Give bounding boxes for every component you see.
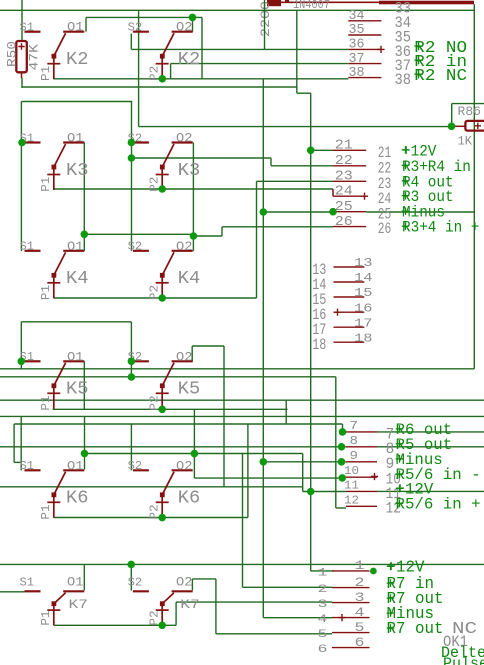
relay K7 contact S2/O2/P2 bbox=[133, 591, 193, 625]
wire drop x202 from O-line bbox=[201, 17, 203, 78]
junction dot (131.4,361.3) bbox=[128, 358, 136, 366]
relay K2 contact S1/O1/P1 bbox=[25, 32, 85, 79]
svg-text:24: 24 bbox=[335, 185, 353, 200]
wire Minus rail to pin4 bbox=[263, 617, 332, 619]
net label R7 out anchor cross bbox=[387, 624, 395, 632]
svg-text:35: 35 bbox=[349, 23, 365, 38]
net label R3+4 in + anchor cross bbox=[402, 222, 410, 230]
wire K5 staple top bbox=[21, 321, 131, 323]
svg-text:11: 11 bbox=[344, 478, 359, 492]
svg-text:10: 10 bbox=[344, 464, 359, 478]
connector pin 37 line bbox=[348, 63, 381, 65]
junction dot (310.7,150.3) bbox=[307, 147, 315, 155]
junction dot (22,142.5) bbox=[18, 139, 26, 147]
connector pin 14 line bbox=[334, 281, 365, 283]
pin 10 connection cross bbox=[371, 473, 378, 480]
wire K2.P common to pin38 R2 NC bbox=[54, 78, 349, 80]
connector pin 12 line bbox=[346, 505, 377, 507]
connector pin 18 line bbox=[334, 341, 365, 343]
svg-text:R5/6 in +: R5/6 in + bbox=[396, 495, 481, 513]
svg-text:K3: K3 bbox=[66, 160, 89, 181]
net label R3+R4 in anchor cross bbox=[402, 162, 410, 170]
connector pin 23 line bbox=[333, 180, 366, 182]
svg-text:K4: K4 bbox=[178, 268, 201, 289]
diode small lead stub bbox=[285, 0, 289, 2]
connector pin 21 line bbox=[333, 149, 366, 151]
relay K5 contact S2/O2/P2 bbox=[133, 361, 193, 409]
svg-text:S1: S1 bbox=[20, 240, 35, 254]
svg-text:O2: O2 bbox=[176, 240, 193, 254]
wire jog x342 to pin7 bbox=[342, 424, 344, 432]
svg-text:17: 17 bbox=[354, 316, 373, 330]
wire K6.O2 rail bbox=[193, 409, 195, 478]
wire R5 out net to right edge bbox=[377, 446, 484, 448]
svg-text:18: 18 bbox=[354, 331, 373, 345]
wire Minus net pin25 to x474 rail bbox=[366, 211, 474, 213]
wire net top horizontal bbox=[0, 9, 474, 11]
svg-text:K7: K7 bbox=[69, 597, 89, 612]
resistor R50 body bbox=[16, 41, 27, 72]
wire K6.O1 branch bbox=[85, 453, 303, 455]
wire K7.S2 up bbox=[130, 564, 132, 590]
pin 24 connection cross bbox=[361, 193, 368, 200]
connector pin 17 line bbox=[334, 326, 365, 328]
junction dot (162.2,409.3) bbox=[158, 406, 166, 414]
wire K2.P2 to pin37 R2 in bbox=[171, 63, 349, 65]
svg-text:P1: P1 bbox=[39, 66, 53, 81]
diode D? 1N4007 body fragment (cropped at top) bbox=[267, 0, 281, 6]
svg-text:5: 5 bbox=[355, 620, 365, 635]
junction dot (21.3,361.3) bbox=[18, 358, 26, 366]
svg-text:R2 NC: R2 NC bbox=[414, 67, 467, 86]
svg-text:P1: P1 bbox=[39, 285, 53, 300]
svg-text:O2: O2 bbox=[176, 459, 193, 473]
svg-text:6: 6 bbox=[355, 635, 365, 650]
junction dot (84.5,453.5) bbox=[81, 450, 89, 458]
svg-text:7: 7 bbox=[350, 419, 359, 433]
svg-text:K6: K6 bbox=[66, 488, 89, 509]
wire R6 out net to right edge bbox=[377, 431, 484, 433]
junction dot (342.5,431.9) bbox=[339, 428, 347, 436]
junction dot (263.3,461.8) bbox=[260, 458, 268, 466]
wire right rail x474 bbox=[473, 4, 475, 369]
junction dot (341.5,446.8) bbox=[338, 443, 346, 451]
svg-text:R7 out: R7 out bbox=[387, 620, 444, 638]
svg-text:O2: O2 bbox=[176, 576, 193, 590]
junction dot (131.4,142.5) bbox=[128, 139, 136, 147]
connector pin 15 line bbox=[334, 296, 365, 298]
wire K2.S2 down bbox=[130, 34, 132, 50]
svg-text:R50: R50 bbox=[5, 41, 19, 67]
svg-text:26: 26 bbox=[378, 220, 392, 238]
wire K2.O2 up bbox=[192, 17, 194, 31]
svg-text:16: 16 bbox=[354, 301, 373, 315]
wire R50 bottom rail bbox=[22, 86, 297, 88]
red jog wire at pin24 bbox=[332, 189, 334, 196]
svg-text:O1: O1 bbox=[67, 240, 84, 254]
svg-text:S2: S2 bbox=[128, 21, 143, 35]
junction dot (84.3,234.3) bbox=[81, 231, 89, 239]
wire K7 P1-P2 common bbox=[54, 624, 176, 626]
relay K3 contact S2/O2/P2 bbox=[133, 143, 193, 191]
junction dot (451.5,126.3) bbox=[448, 123, 456, 131]
relay K6 contact S2/O2/P2 bbox=[133, 470, 193, 518]
svg-text:K4: K4 bbox=[66, 268, 89, 289]
resistor R86 polarity cross bbox=[475, 123, 481, 129]
connector pin 24 line bbox=[333, 195, 366, 197]
svg-text:P1: P1 bbox=[39, 177, 53, 192]
svg-text:38: 38 bbox=[349, 66, 365, 81]
wire Minus rail to pin25 bbox=[263, 211, 333, 213]
wire K7.P to pin3 R7 out bbox=[176, 601, 332, 603]
wire K7.O2 riser to pin5 bbox=[215, 579, 217, 634]
svg-text:K5: K5 bbox=[66, 379, 89, 400]
connector pin 22 line bbox=[333, 165, 366, 167]
wire pin12 jog bbox=[336, 507, 346, 509]
wire long bus K7 row bbox=[0, 563, 484, 565]
junction dot (310.7,491.5) bbox=[307, 488, 315, 496]
connector pin 2 line bbox=[332, 587, 370, 589]
wire K2.O1 to O2 dot bbox=[86, 16, 202, 18]
svg-text:O1: O1 bbox=[67, 459, 84, 473]
wire riser x242 to pin2 R7 in bbox=[243, 586, 333, 588]
svg-text:O2: O2 bbox=[176, 21, 193, 35]
wire jog x222 bbox=[221, 227, 223, 236]
resistor R50 bottom lead bbox=[21, 72, 23, 78]
wire diode/2200 lead down bbox=[264, 0, 266, 49]
wire R86 frame top bbox=[452, 103, 484, 105]
connector pin 5 line bbox=[332, 632, 370, 634]
wire to pin11 bbox=[303, 491, 346, 493]
net label R5 out anchor cross bbox=[396, 440, 404, 448]
svg-text:+12V: +12V bbox=[387, 558, 425, 576]
wire K3.O2 down to dot bbox=[192, 143, 194, 251]
connector pin 7 line bbox=[346, 431, 377, 433]
wire K6 P1-P2 common bbox=[54, 517, 248, 519]
wire vertical x296 bbox=[296, 10, 298, 93]
svg-text:4: 4 bbox=[355, 605, 365, 620]
connector pin 1 line bbox=[332, 570, 370, 572]
svg-text:S2: S2 bbox=[128, 240, 143, 254]
wire S2 rail K3-K4 bbox=[131, 102, 133, 251]
connector pin 34 line bbox=[348, 20, 381, 22]
connector pin 11 line bbox=[346, 490, 377, 492]
wire K6.O1 rail bbox=[84, 416, 86, 469]
pin 1 wire end dot bbox=[370, 568, 377, 575]
wire Minus rail to pin9 bbox=[263, 461, 346, 463]
wire long bus A bbox=[0, 368, 474, 370]
wire K5.S1 rail bbox=[20, 322, 22, 369]
wire jog x271 bbox=[270, 158, 272, 166]
pin 16 connection cross bbox=[334, 309, 341, 316]
junction dot (131.4,158) bbox=[128, 154, 136, 162]
wire riser x302 bbox=[302, 454, 304, 492]
wire K5.P riser bbox=[285, 400, 287, 424]
junction dot (194.4,453.6) bbox=[191, 450, 199, 458]
svg-text:6: 6 bbox=[318, 644, 328, 656]
wire long bus E bbox=[0, 486, 303, 488]
wire jog x296 to x310 bbox=[297, 92, 311, 94]
wire K4.P riser to pin23 bbox=[256, 181, 258, 298]
net label R5/6 in + anchor cross bbox=[396, 500, 404, 508]
svg-text:26: 26 bbox=[335, 215, 353, 230]
wire K5.O1 drop bbox=[83, 361, 85, 409]
svg-text:13: 13 bbox=[354, 256, 373, 270]
svg-text:9: 9 bbox=[350, 449, 359, 463]
net label R2 NC anchor cross bbox=[414, 70, 422, 78]
wire K4.P to pin23 R4 out bbox=[257, 180, 334, 182]
resistor R86 body (cropped right) bbox=[465, 121, 484, 131]
wire K6.S2 rail bbox=[130, 424, 132, 470]
svg-text:25: 25 bbox=[335, 200, 353, 215]
wire K6.S1 rail bbox=[20, 416, 22, 470]
wire K5.O2 up stub bbox=[191, 346, 193, 361]
svg-text:K3: K3 bbox=[178, 160, 201, 181]
wire K5 P1-P2 common bbox=[53, 408, 288, 410]
junction dot (342.3,477.9) bbox=[339, 474, 347, 482]
wire net top to R86 net bbox=[138, 10, 140, 126]
wire K5.O2 riser x224 bbox=[223, 346, 225, 487]
junction dot (263.3,212) bbox=[260, 208, 268, 216]
relay K5 contact S1/O1/P1 bbox=[25, 361, 85, 409]
svg-text:1: 1 bbox=[318, 568, 329, 580]
wire K4 P1-P2 common bbox=[54, 297, 257, 299]
connector pin 25 line bbox=[333, 211, 366, 213]
wire Minus long rail x263 bbox=[262, 79, 264, 618]
net label R7 out anchor cross bbox=[387, 594, 395, 602]
net label R5/6 in - anchor cross bbox=[396, 470, 404, 478]
wire +12V to pin21 bbox=[311, 149, 333, 151]
wire +12V to pin1 bbox=[311, 570, 334, 572]
wire K3.S2 to pin22 jog left part bbox=[131, 157, 271, 159]
junction dot (131.2,564.4) bbox=[127, 561, 135, 569]
wire K2.P2 up jog bbox=[170, 64, 172, 79]
wire K3.P to pin24 R3 out bbox=[54, 188, 333, 190]
wire K6 staple jog bottom bbox=[14, 461, 21, 463]
net label R2 NO anchor cross bbox=[414, 42, 422, 50]
wire to pin22 R3+R4 in bbox=[271, 165, 333, 167]
svg-text:S2: S2 bbox=[128, 459, 143, 473]
junction dot (162.2,517.6) bbox=[158, 514, 166, 522]
svg-text:5: 5 bbox=[318, 629, 328, 641]
wire K7.O2 up jog bbox=[191, 579, 193, 590]
svg-text:K6: K6 bbox=[178, 488, 201, 509]
connector pin 38 line bbox=[348, 77, 381, 79]
resistor R50 polarity cross bbox=[18, 43, 24, 49]
wire pin12 riser x335 bbox=[335, 377, 337, 508]
wire R50 bottom lead join bbox=[21, 78, 23, 88]
connector pin 26 line bbox=[333, 226, 366, 228]
svg-text:P1: P1 bbox=[39, 395, 53, 410]
svg-text:2200: 2200 bbox=[258, 1, 273, 37]
svg-text:21: 21 bbox=[335, 139, 353, 154]
junction dot (131.4,377) bbox=[128, 373, 136, 381]
wire K7.P riser to pin3 bbox=[175, 602, 177, 625]
wire riser x242 from K6.O1 line bbox=[242, 454, 244, 588]
wire +12V long vertical rail bbox=[310, 93, 312, 571]
wire to pin26 R3+4 in bbox=[222, 226, 333, 228]
wire long net to R86 bbox=[139, 126, 452, 128]
svg-text:12: 12 bbox=[344, 493, 359, 507]
wire K7.S1 stub to left edge bbox=[0, 591, 25, 593]
svg-text:R3+4 in +: R3+4 in + bbox=[402, 219, 479, 237]
net label Minus anchor cross bbox=[402, 207, 410, 215]
wire K6.P riser x247.9 bbox=[247, 424, 249, 517]
wire K5.O2 branch top bbox=[192, 345, 224, 347]
svg-text:O1: O1 bbox=[67, 132, 84, 146]
connector pin 36 line bbox=[348, 48, 381, 50]
svg-text:18: 18 bbox=[312, 336, 326, 354]
junction dot (193.5,236) bbox=[190, 232, 198, 240]
wire +12V net to right edge bbox=[377, 490, 484, 492]
junction dot (162.2,625.3) bbox=[158, 622, 166, 630]
connector pin 16 line bbox=[334, 311, 365, 313]
svg-text:K5: K5 bbox=[178, 379, 201, 400]
net label R7 in anchor cross bbox=[387, 579, 395, 587]
svg-text:37: 37 bbox=[349, 52, 365, 67]
junction dot (341.5,461.8) bbox=[338, 458, 346, 466]
junction dot (192.5,17.4) bbox=[189, 14, 197, 22]
wire S1 rail K3-K4 bbox=[20, 102, 22, 252]
resistor R86 left lead bbox=[454, 125, 465, 127]
svg-text:36: 36 bbox=[349, 38, 365, 53]
wire O1 rail K3-K4 bbox=[83, 143, 85, 251]
svg-text:3: 3 bbox=[355, 590, 365, 605]
svg-text:S1: S1 bbox=[20, 21, 35, 35]
svg-text:P1: P1 bbox=[39, 504, 53, 519]
net label R6 out anchor cross bbox=[396, 425, 404, 433]
svg-text:P1: P1 bbox=[39, 610, 53, 625]
svg-text:15: 15 bbox=[354, 286, 373, 300]
svg-text:2: 2 bbox=[318, 584, 328, 596]
junction dot (162.2,298) bbox=[158, 294, 166, 302]
svg-text:O1: O1 bbox=[67, 21, 84, 35]
svg-text:K2: K2 bbox=[178, 49, 201, 70]
junction dot (162.2,189) bbox=[158, 185, 166, 193]
wire long bus D bbox=[0, 415, 484, 417]
svg-text:K7: K7 bbox=[180, 597, 200, 612]
svg-text:O2: O2 bbox=[176, 350, 193, 364]
net label R4 out anchor cross bbox=[402, 177, 410, 185]
net label +12V anchor cross bbox=[402, 146, 410, 154]
red bus bar top right (cropped) bbox=[379, 1, 474, 5]
wire S1 rail into R50 top bbox=[21, 0, 23, 41]
svg-text:O2: O2 bbox=[176, 132, 193, 146]
svg-text:14: 14 bbox=[354, 271, 373, 285]
wire R86 frame left bbox=[451, 104, 453, 127]
pin 4 connection cross bbox=[338, 614, 345, 621]
wire R5 out bus to pin8 bbox=[0, 446, 346, 448]
wire K5.S2 rail bbox=[130, 322, 132, 377]
svg-text:34: 34 bbox=[349, 9, 365, 24]
svg-text:S1: S1 bbox=[20, 575, 35, 589]
wire K3 staple top bbox=[21, 101, 132, 103]
svg-text:K2: K2 bbox=[66, 49, 89, 70]
svg-text:38: 38 bbox=[395, 71, 412, 89]
net label +12V anchor cross bbox=[396, 485, 404, 493]
svg-text:O1: O1 bbox=[67, 350, 84, 364]
svg-text:1K: 1K bbox=[458, 135, 473, 149]
wire K2.S2 to pin36 R2 NO bbox=[131, 48, 348, 50]
net label R3 out anchor cross bbox=[402, 192, 410, 200]
wire stub pin7 bbox=[343, 431, 346, 433]
wire long bus B to pin12 branch bbox=[0, 376, 336, 378]
svg-text:2: 2 bbox=[355, 575, 365, 590]
svg-text:S2: S2 bbox=[128, 575, 143, 589]
svg-text:3: 3 bbox=[318, 599, 328, 611]
svg-text:R86: R86 bbox=[458, 105, 482, 119]
connector pin 8 line bbox=[346, 446, 377, 448]
connector pin 9 line bbox=[346, 461, 377, 463]
connector pin 3 line bbox=[332, 602, 370, 604]
connector pin 13 line bbox=[334, 266, 365, 268]
relay K3 contact S1/O1/P1 bbox=[25, 143, 85, 191]
connector pin 35 line bbox=[348, 34, 381, 36]
svg-text:S1: S1 bbox=[20, 459, 35, 473]
relay K7 contact S1/O1/P1 bbox=[25, 591, 85, 625]
wire K3.O1/K4.O1 branch bbox=[84, 233, 193, 235]
wire long bus C bbox=[0, 399, 484, 401]
relay K4 contact S1/O1/P1 bbox=[25, 251, 85, 298]
svg-text:O1: O1 bbox=[67, 576, 84, 590]
junction dot (333,211.7) bbox=[329, 208, 337, 216]
svg-text:1: 1 bbox=[355, 558, 365, 573]
pin 36 connection cross bbox=[377, 46, 384, 53]
wire K6.O2 to pin10 bbox=[194, 477, 343, 479]
svg-text:4: 4 bbox=[318, 614, 328, 626]
wire K6 staple left leg bbox=[13, 424, 15, 462]
net label R2 in anchor cross bbox=[414, 56, 422, 64]
wire K6 staple top / R6 line bbox=[14, 423, 342, 425]
wire O2 dot jog bbox=[194, 235, 223, 237]
net label Minus anchor cross bbox=[387, 609, 395, 617]
net label Minus anchor cross bbox=[396, 455, 404, 463]
connector pin 4 line bbox=[332, 617, 370, 619]
svg-text:23: 23 bbox=[335, 170, 353, 185]
svg-text:8: 8 bbox=[350, 434, 359, 448]
wire K7.O2 branch upper bbox=[192, 578, 216, 580]
connector pin 6 line bbox=[332, 647, 370, 649]
wire K2.O1 up bbox=[85, 17, 87, 31]
svg-text:Pulse: Pulse bbox=[443, 655, 484, 665]
connector pin 10 line bbox=[346, 476, 377, 478]
wire K7.O2 to pin5 bbox=[216, 633, 332, 635]
wire K7.O1 up bbox=[83, 564, 85, 590]
relay K6 contact S1/O1/P1 bbox=[25, 470, 85, 518]
svg-text:22: 22 bbox=[335, 154, 353, 169]
junction dot (162.3,78.8) bbox=[159, 75, 167, 83]
net label +12V anchor cross bbox=[387, 563, 395, 571]
relay K2 contact S2/O2/P2 bbox=[133, 32, 193, 79]
diode lead wire (red, cropped) bbox=[281, 1, 380, 3]
relay K4 contact S2/O2/P2 bbox=[133, 251, 193, 298]
